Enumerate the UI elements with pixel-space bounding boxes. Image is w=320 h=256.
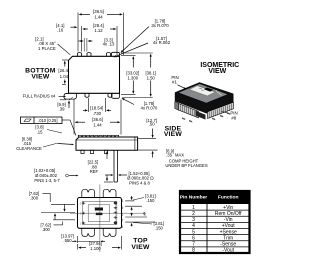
svg-text:5: 5: [192, 229, 195, 235]
svg-text:.300: .300: [30, 195, 39, 200]
flange tab bottom-left (full radius): [64, 93, 77, 99]
iso flange block left: [179, 104, 199, 118]
side view baseplate line: [77, 139, 138, 141]
svg-text:MAX: MAX: [175, 152, 184, 157]
svg-text:1 PLACE: 1 PLACE: [38, 46, 56, 51]
svg-text:4x R.070: 4x R.070: [141, 106, 158, 111]
svg-text:1.04: 1.04: [60, 74, 69, 79]
svg-text:[18.54]: [18.54]: [90, 105, 103, 110]
svg-text:1: 1: [192, 205, 195, 211]
svg-text:#1: #1: [172, 80, 177, 85]
svg-text:.35: .35: [166, 152, 172, 157]
svg-text:-Vin: -Vin: [224, 217, 233, 223]
dim 8.9/.35 left lower: [60, 99, 66, 101]
svg-text:1.44: 1.44: [93, 123, 102, 128]
pin stubs on top edge: [78, 53, 82, 57]
top view left pins 1-3: [83, 202, 85, 204]
top view tabs: [82, 189, 95, 197]
svg-text:.16: .16: [57, 28, 64, 33]
pin stubs on bottom edge: [85, 93, 89, 97]
pin dia callout 1.52/.060 pins 4,8: [105, 174, 111, 176]
svg-text:.010 [0.25]: .010 [0.25]: [38, 118, 57, 123]
top view centerlines: [99, 185, 101, 253]
dim 4.1/.16: [71, 26, 75, 28]
svg-text:Function: Function: [218, 195, 239, 201]
bottom view body outline: [69, 56, 120, 93]
dim 3.81/.150 upper right: [125, 200, 134, 202]
top view body: [78, 198, 122, 229]
iso flange block right: [208, 102, 234, 118]
svg-text:CLEARANCE: CLEARANCE: [16, 146, 42, 151]
svg-text:7: 7: [121, 218, 123, 222]
iso label recess: [189, 86, 215, 96]
svg-text:3: 3: [192, 217, 195, 223]
side view baseplate ribs: [78, 135, 81, 137]
svg-text:3x R.070: 3x R.070: [151, 23, 169, 28]
svg-text:[26.4]: [26.4]: [58, 68, 69, 73]
svg-text:8: 8: [121, 225, 123, 229]
dim 18.54/.730 below: [88, 98, 90, 112]
svg-text:.730: .730: [93, 111, 102, 116]
svg-text:#8: #8: [231, 115, 236, 120]
flange tab bottom-right: [112, 93, 120, 98]
svg-text:4: 4: [192, 223, 195, 229]
iso module top face: [178, 84, 229, 104]
iso label dark bar: [204, 88, 213, 92]
dim 3.3/4x.13: [83, 38, 85, 52]
iso left end cap: [175, 102, 179, 111]
svg-text:4x R.062: 4x R.062: [153, 40, 171, 45]
svg-text:4x .13: 4x .13: [103, 42, 115, 47]
svg-text:VIEW: VIEW: [131, 244, 150, 251]
iso module black body: [175, 82, 234, 113]
svg-text:-Vout: -Vout: [222, 248, 234, 254]
svg-text:1.300: 1.300: [128, 75, 139, 80]
svg-text:[27.94]: [27.94]: [89, 241, 102, 246]
dim 38.1/1.50 right: [121, 52, 153, 54]
iso pin bumps on top face: [216, 90, 217, 91]
svg-text:1.44: 1.44: [94, 14, 103, 19]
side view slab: [76, 137, 138, 150]
top view right pins 4-8: [114, 202, 117, 205]
iso feet under flanges: [182, 117, 185, 120]
svg-text:2: 2: [192, 211, 195, 217]
svg-text:+Sense: +Sense: [220, 229, 237, 235]
pin table: [180, 191, 250, 254]
svg-text:.300: .300: [42, 227, 51, 232]
svg-text:.15: .15: [37, 129, 43, 134]
svg-text:VIEW: VIEW: [208, 68, 226, 75]
svg-text:[36.6]: [36.6]: [92, 117, 103, 122]
svg-text:.150: .150: [146, 198, 155, 203]
svg-text:1.100: 1.100: [90, 246, 101, 251]
svg-text:.150: .150: [155, 225, 164, 230]
svg-text:Pin Number: Pin Number: [180, 195, 208, 201]
dim 8.9/.35 comp height: [138, 149, 157, 151]
dim 33.02/1.300 right: [121, 55, 136, 57]
svg-text:-Sense: -Sense: [220, 242, 236, 248]
top view label bars: [95, 208, 103, 211]
svg-text:Rem On/Off: Rem On/Off: [215, 211, 242, 217]
svg-text:FULL RADIUS x4: FULL RADIUS x4: [23, 94, 56, 99]
side view short pins: [81, 150, 84, 153]
svg-text:5: 5: [121, 206, 123, 210]
top view inner rect: [82, 202, 117, 225]
svg-text:.550: .550: [63, 238, 72, 243]
svg-text:8: 8: [192, 248, 195, 254]
side view right step: [134, 137, 136, 150]
svg-text:VIEW: VIEW: [164, 131, 183, 138]
dim 36.6/1.44 below: [73, 100, 75, 135]
svg-text:PINS 4 & 8: PINS 4 & 8: [129, 180, 150, 185]
iso label small marks: [199, 88, 203, 90]
svg-text:4: 4: [121, 199, 123, 203]
dim 36.5/1.44 top: [77, 13, 79, 52]
svg-text:1.12: 1.12: [94, 28, 103, 33]
svg-text:UNDER BP FLANGES: UNDER BP FLANGES: [165, 163, 207, 168]
dim 3.81/.150 lower right: [125, 216, 147, 218]
svg-text:7: 7: [192, 242, 195, 248]
svg-text:Trim: Trim: [223, 235, 233, 241]
svg-text:REF: REF: [90, 169, 99, 174]
dim 28.4/1.12: [81, 26, 83, 52]
flatness feature control frame: [21, 117, 63, 124]
dim 27.94/1.100 bottom: [77, 244, 79, 250]
iso gap pins under body: [196, 111, 206, 120]
flange tab top-right: [112, 52, 120, 56]
svg-text:VIEW: VIEW: [31, 74, 50, 81]
svg-text:+Vin: +Vin: [223, 205, 233, 211]
svg-text:6: 6: [192, 235, 195, 241]
side view long pins 4 and 8: [113, 150, 115, 182]
svg-text:.39: .39: [59, 107, 66, 112]
svg-text:1.50: 1.50: [147, 75, 156, 80]
dim 26.4/1.04 left: [62, 59, 68, 61]
svg-text:+Vout: +Vout: [222, 223, 236, 229]
svg-text:.50: .50: [149, 122, 156, 127]
svg-text:[36.5]: [36.5]: [93, 9, 104, 14]
svg-text:PINS 1-3, 5-7: PINS 1-3, 5-7: [34, 178, 60, 183]
